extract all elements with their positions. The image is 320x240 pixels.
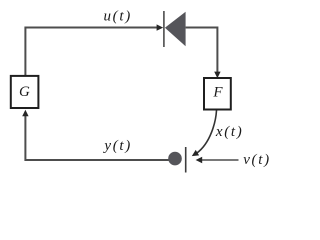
svg-text:v(t): v(t) [243,152,271,168]
svg-text:G: G [19,84,30,100]
svg-text:y(t): y(t) [102,138,132,154]
svg-text:x(t): x(t) [215,124,244,140]
svg-text:u(t): u(t) [103,8,131,24]
svg-text:F: F [212,85,223,101]
